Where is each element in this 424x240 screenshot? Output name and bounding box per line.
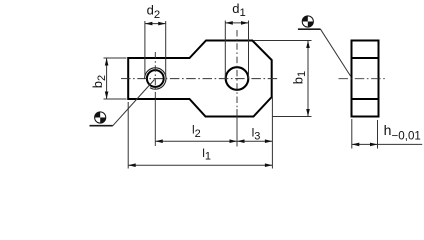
extension lines b2 [104, 58, 127, 99]
extension line l1/l3 right [271, 97, 273, 169]
centerline horizontal front view [121, 78, 278, 80]
extension lines d1 [225, 21, 248, 79]
extension lines h [352, 119, 378, 149]
side view outline [352, 41, 379, 117]
dimension line d2 [145, 23, 166, 25]
centerline vertical small hole [154, 52, 156, 99]
side view step line bottom [352, 98, 379, 100]
svg-text:b1: b1 [290, 71, 308, 84]
svg-text:l3: l3 [252, 126, 261, 143]
plate outline (front view) [128, 41, 272, 117]
dimension line h with shelf [352, 143, 422, 145]
thread arc around small hole [145, 68, 166, 89]
dimension line b1 [307, 41, 309, 117]
svg-text:b2: b2 [90, 75, 108, 88]
svg-text:l1: l1 [202, 146, 211, 162]
dimension line l1 [128, 164, 272, 166]
dimension line l3 [237, 140, 272, 142]
hole big bold circle [226, 67, 249, 90]
svg-text:h: h [384, 122, 392, 138]
svg-text:−0,01: −0,01 [392, 129, 421, 142]
extension lines b1 [254, 41, 312, 117]
side view step line top [352, 57, 379, 59]
dimension line d1 [225, 22, 248, 24]
surface symbol top-right [298, 16, 351, 76]
extension line l1 left [127, 102, 129, 169]
svg-text:l2: l2 [192, 123, 201, 141]
hole small (threaded) bold circle [147, 70, 164, 87]
centerline vertical big hole [236, 30, 238, 109]
extension lines d2 [145, 21, 166, 76]
centerline side view [339, 78, 388, 80]
svg-text:d2: d2 [147, 2, 161, 21]
dimension line b2 [106, 58, 108, 99]
dimension line l2 [155, 140, 237, 142]
svg-text:d1: d1 [232, 1, 246, 19]
surface symbol bottom-left [90, 80, 155, 126]
